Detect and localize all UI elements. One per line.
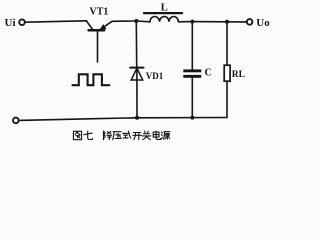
wire diode branch lower	[136, 68, 138, 118]
top plate	[183, 69, 201, 72]
glyph 七	[84, 131, 92, 139]
svg-text:Uo: Uo	[256, 17, 270, 29]
glyph 源	[161, 132, 170, 140]
node Ui input terminal	[19, 19, 25, 25]
svg-text:VD1: VD1	[146, 71, 164, 81]
svg-text:C: C	[205, 68, 212, 79]
node Uo output terminal	[247, 19, 253, 25]
left diagonal (collector lead)	[86, 21, 93, 30]
inductor L	[144, 13, 182, 22]
svg-text:L: L	[161, 2, 168, 13]
glyph 关	[142, 131, 151, 140]
emitter diagonal	[100, 21, 112, 29]
bottom plate	[183, 75, 201, 78]
wire bottom rail	[19, 118, 227, 121]
node junction dot (capacitor top)	[190, 20, 194, 24]
wire top rail: RL node to Uo terminal	[227, 21, 246, 23]
glyph 式	[123, 131, 131, 138]
node junction dot (diode bottom)	[135, 116, 139, 120]
drive pulse waveform symbol	[73, 74, 110, 85]
wire top rail: Ui terminal to VT1 collector	[25, 21, 87, 22]
glyph 开	[133, 133, 141, 140]
wire resistor branch upper	[226, 22, 228, 65]
glyph 电	[153, 131, 160, 140]
node junction dot (diode top)	[134, 19, 138, 23]
transistor VT1	[86, 21, 112, 62]
wire diode branch upper	[135, 21, 137, 68]
wire top rail: inductor to capacitor node	[178, 21, 192, 23]
capacitor C	[183, 69, 201, 77]
svg-text:VT1: VT1	[90, 7, 109, 18]
emitter arrowhead	[99, 25, 106, 31]
wire top rail: capacitor node to RL node	[192, 21, 227, 23]
anode triangle	[131, 68, 143, 80]
svg-text:RL: RL	[232, 70, 245, 80]
glyph 压	[113, 132, 122, 140]
caption 图七 降压式开关电源	[73, 131, 170, 140]
wire top rail: diode node to inductor	[136, 20, 150, 23]
wire capacitor branch upper	[191, 22, 193, 70]
winding humps	[150, 17, 178, 22]
diode VD1	[130, 68, 143, 80]
node junction dot (capacitor bottom)	[190, 116, 194, 120]
node ground/return terminal (bottom left)	[13, 118, 19, 124]
glyph 图	[73, 131, 81, 139]
core bar	[144, 12, 182, 14]
glyph 降	[104, 131, 112, 140]
wire top rail: VT1 emitter to diode node	[112, 20, 136, 22]
base lead	[97, 31, 99, 62]
cathode bar	[130, 67, 143, 69]
svg-text:Ui: Ui	[5, 17, 16, 29]
node junction dot (RL top)	[225, 20, 229, 24]
resistor RL	[224, 65, 230, 81]
wire capacitor branch lower	[191, 78, 193, 118]
base bar	[89, 29, 105, 32]
wire resistor branch lower	[226, 81, 228, 117]
